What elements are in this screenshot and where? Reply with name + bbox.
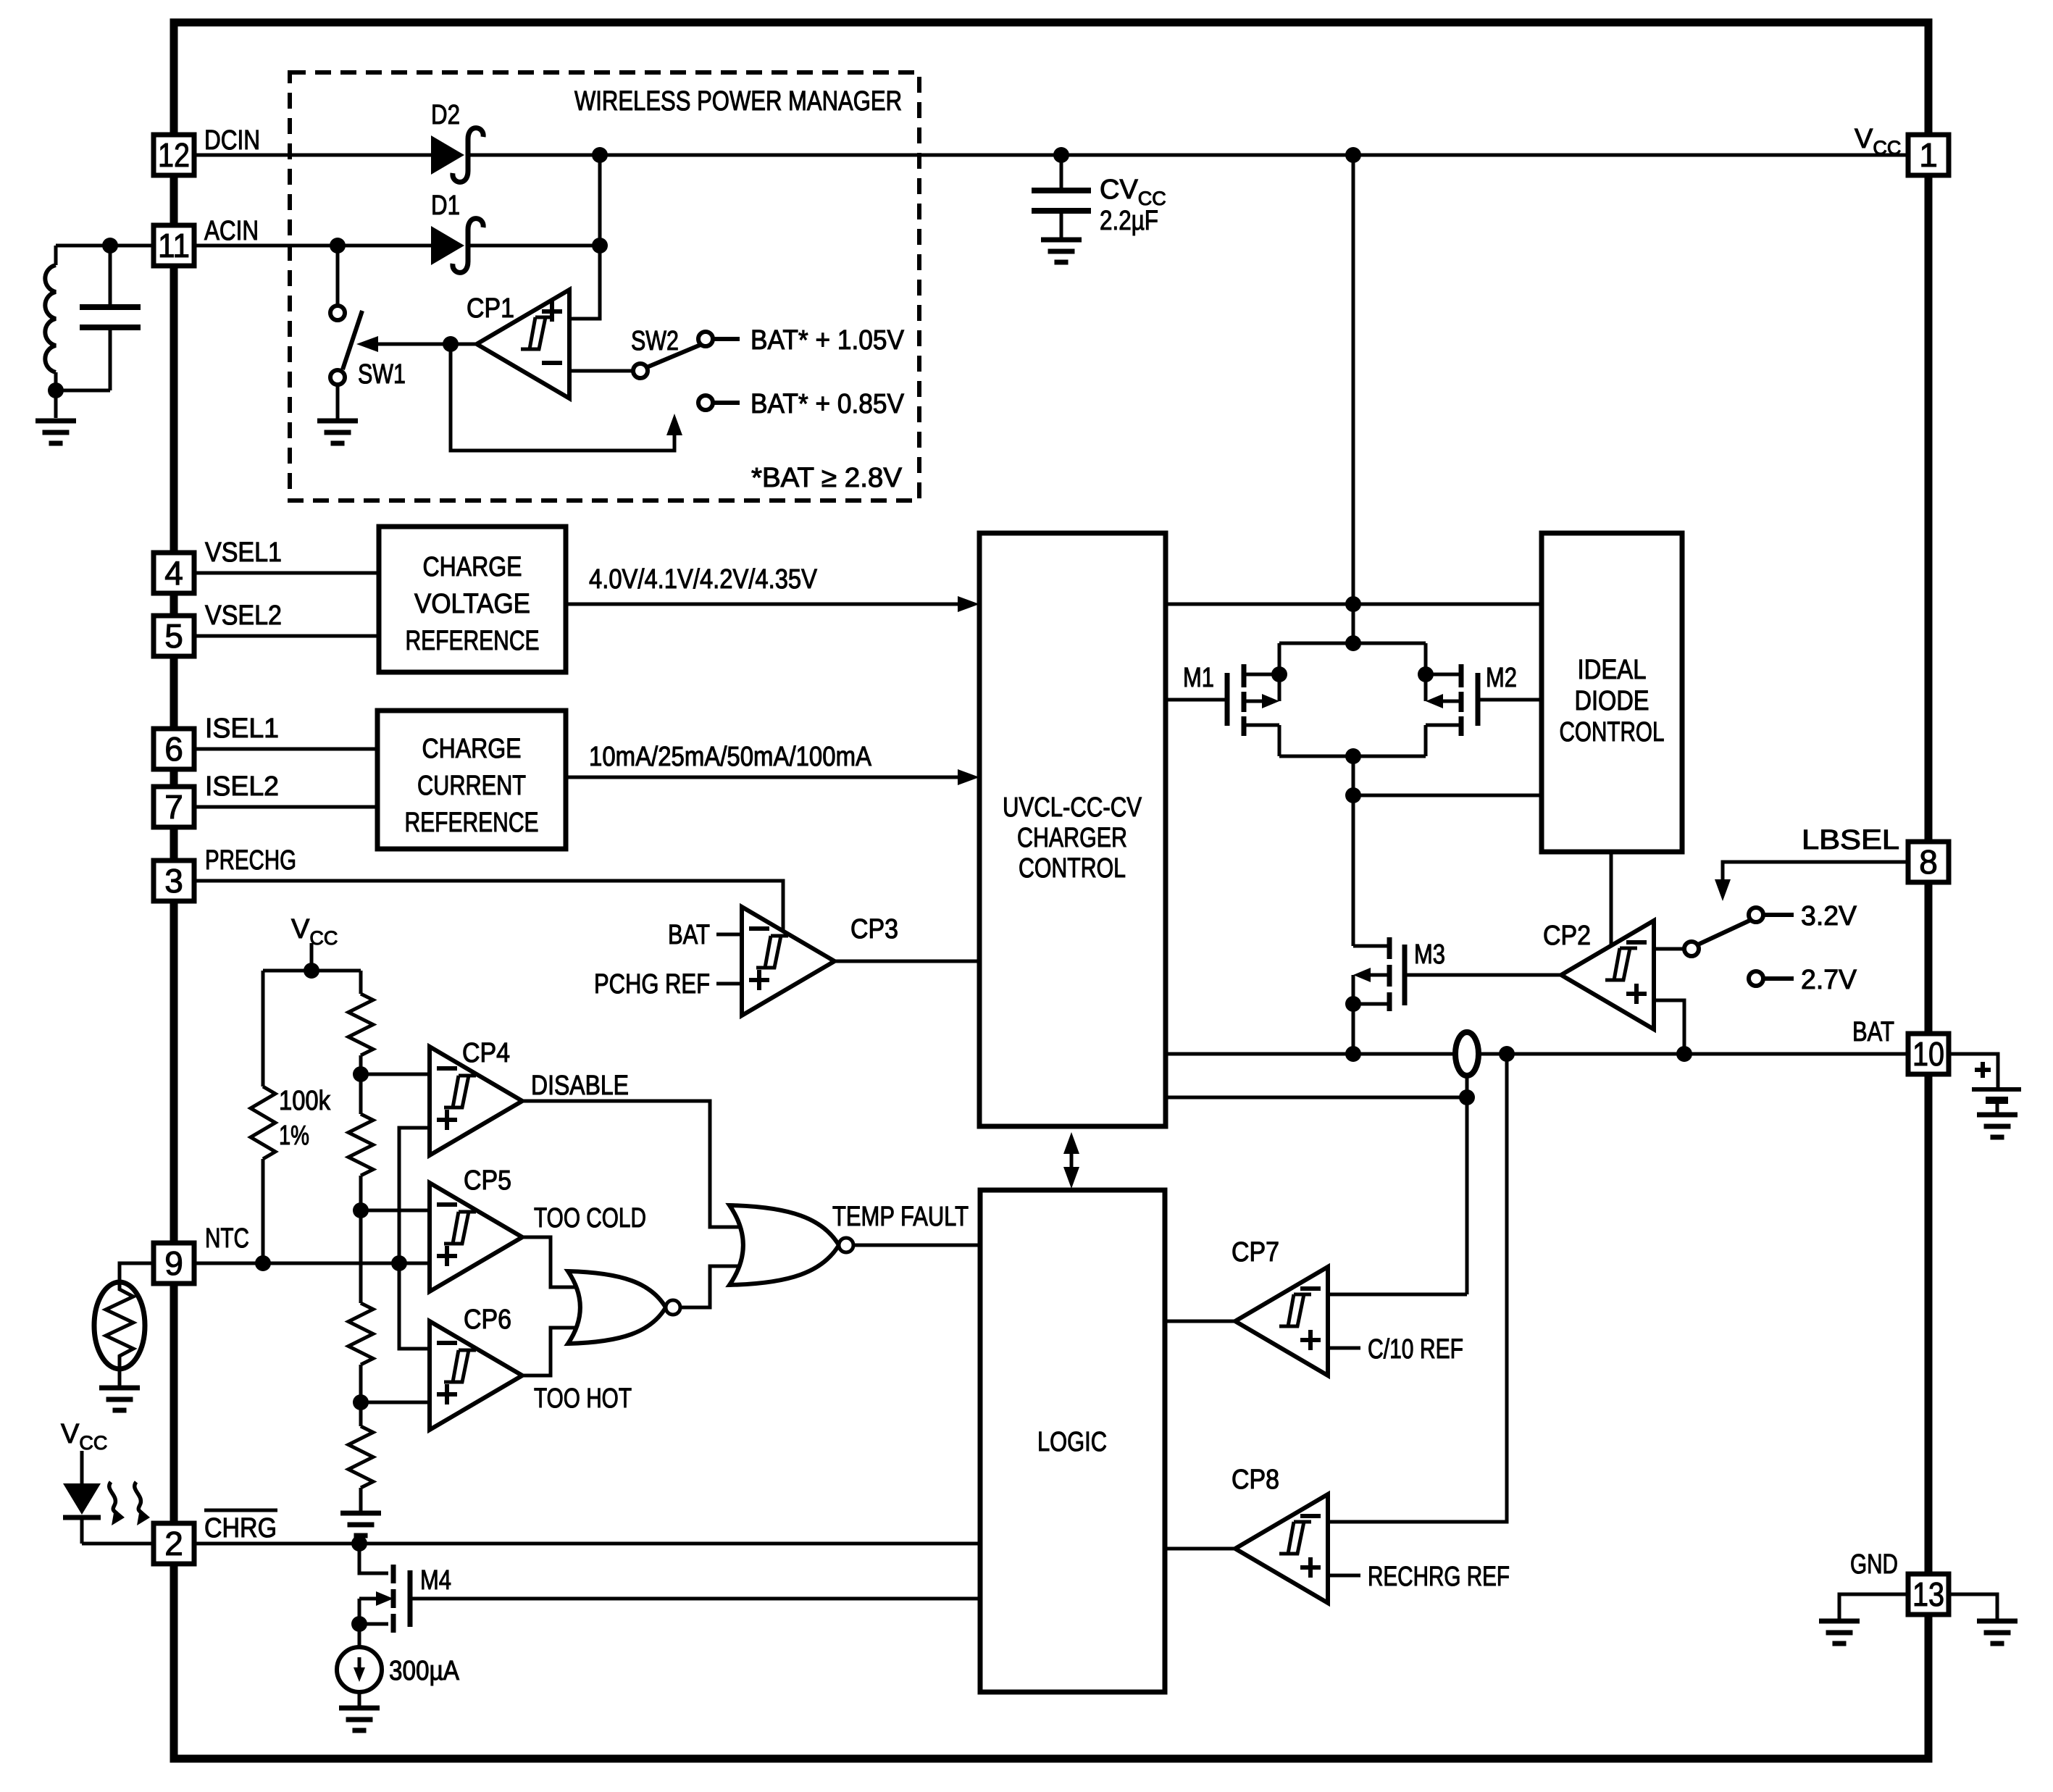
wire RC to CP6 tap xyxy=(359,1365,363,1402)
label SW2 xyxy=(631,326,679,356)
svg-text:D2: D2 xyxy=(431,100,460,130)
wire CP3 plus stub xyxy=(716,982,742,986)
node CHRG M4 junction xyxy=(351,1536,367,1552)
node C/10 sense junction xyxy=(1459,1089,1475,1105)
svg-text:M3: M3 xyxy=(1414,939,1445,970)
resistor 100k 1% xyxy=(251,1086,275,1159)
transistor M3 xyxy=(1353,937,1561,1011)
wire ISEL2 xyxy=(194,805,377,809)
svg-text:6: 6 xyxy=(164,730,183,768)
wire CP2 output to M3 gate xyxy=(1468,974,1561,977)
ground CVCC xyxy=(1041,240,1082,262)
pin 7 ISEL2 xyxy=(154,787,194,827)
svg-text:CURRENT: CURRENT xyxy=(417,771,526,801)
capacitor CVCC xyxy=(1032,155,1091,238)
svg-text:M1: M1 xyxy=(1183,663,1214,693)
label D1 xyxy=(431,190,460,221)
comparator CP7 xyxy=(1235,1267,1328,1376)
wire oval to C/10 sense xyxy=(1465,1076,1469,1294)
wire M1/M2 bottom bus xyxy=(1279,755,1426,758)
node M3-BAT junction xyxy=(1345,1046,1361,1062)
wire RD to ground xyxy=(359,1488,363,1512)
resistor chain RC xyxy=(348,1303,373,1365)
svg-text:DIODE: DIODE xyxy=(1575,686,1649,716)
svg-text:11: 11 xyxy=(158,227,190,264)
svg-text:TEMP FAULT: TEMP FAULT xyxy=(832,1202,969,1232)
wire CP7 output to logic xyxy=(1166,1320,1237,1323)
block CHARGE VOLTAGE REFERENCE xyxy=(379,527,566,672)
wire ACIN external xyxy=(110,244,153,248)
switch SW2 throw BAT*+0.85V xyxy=(698,395,740,410)
block UVCL-CC-CV CHARGER CONTROL xyxy=(979,533,1166,1126)
label 4.0V/4.1V/4.2V/4.35V xyxy=(589,564,818,595)
label D2 xyxy=(431,100,460,130)
comparator CP2 xyxy=(1561,921,1654,1029)
switch LBSEL pole xyxy=(1684,942,1699,956)
wire current source to ground xyxy=(358,1692,361,1707)
label 100k xyxy=(279,1086,331,1116)
label ACIN xyxy=(204,216,259,246)
ground current source xyxy=(339,1708,380,1730)
resistor chain RB xyxy=(348,1114,373,1176)
wire DCIN pin12 to D2 xyxy=(194,154,431,157)
svg-text:BAT* + 1.05V: BAT* + 1.05V xyxy=(750,325,905,356)
wire CP2 plus to BAT xyxy=(1654,1000,1684,1054)
comparator CP1 xyxy=(477,290,569,398)
svg-text:BAT: BAT xyxy=(668,920,710,950)
label CP1 xyxy=(467,293,514,324)
wire VSEL2 xyxy=(194,635,379,638)
label CP4 xyxy=(462,1038,510,1068)
wire charger control C/10 sense output xyxy=(1166,1096,1467,1100)
wire CP2 minus stub xyxy=(1654,947,1684,951)
svg-text:2.2µF: 2.2µF xyxy=(1100,206,1158,236)
pin 12 DCIN xyxy=(154,135,194,175)
ground GND right xyxy=(1977,1621,2018,1644)
wire CP7 minus input xyxy=(1328,1293,1467,1297)
pin 10 BAT xyxy=(1908,1034,1949,1074)
label CP2 xyxy=(1543,921,1591,951)
label TOO HOT xyxy=(534,1383,632,1414)
svg-text:300µA: 300µA xyxy=(389,1656,460,1686)
label BAT* + 1.05V xyxy=(750,325,905,356)
svg-text:VOLTAGE: VOLTAGE xyxy=(414,589,530,619)
svg-text:BAT* + 0.85V: BAT* + 0.85V xyxy=(750,389,905,419)
node coil-cap junction top xyxy=(102,238,118,254)
ground thermistor xyxy=(99,1388,140,1410)
label M1 xyxy=(1183,663,1214,693)
wire BAT line xyxy=(1166,1052,1908,1056)
wire right branch down xyxy=(359,971,363,994)
label CP7 xyxy=(1232,1237,1279,1268)
wire 100k to NTC line xyxy=(262,1159,265,1263)
svg-text:CP2: CP2 xyxy=(1543,921,1591,951)
node M1 drain junction xyxy=(1271,666,1287,682)
wire RB to CP5 tap xyxy=(359,1176,363,1210)
node mid rail junction xyxy=(1345,787,1361,803)
switch SW2 pole xyxy=(633,364,648,378)
node pair top junction xyxy=(1345,635,1361,651)
wire VSEL1 xyxy=(194,571,379,575)
label BAT input xyxy=(668,920,710,950)
node CP2 plus BAT junction xyxy=(1676,1046,1692,1062)
label M4 xyxy=(420,1565,451,1596)
wire CP4 plus route xyxy=(399,1128,430,1349)
wire top rail charger to ideal diode xyxy=(1166,603,1542,606)
pin 6 ISEL1 xyxy=(154,729,194,769)
label CHRG overline xyxy=(204,1510,277,1544)
wire CP3 output xyxy=(835,960,979,963)
svg-text:PCHG REF: PCHG REF xyxy=(594,969,710,1000)
wire to coil xyxy=(56,244,110,248)
current source 300uA xyxy=(337,1647,382,1692)
label *BAT >= 2.8V xyxy=(751,463,903,493)
pin 2 CHRG xyxy=(154,1523,194,1564)
svg-text:VSEL2: VSEL2 xyxy=(205,600,282,631)
label DISABLE xyxy=(531,1071,629,1101)
wire D1 cathode to node xyxy=(467,244,600,248)
svg-text:UVCL-CC-CV: UVCL-CC-CV xyxy=(1003,792,1142,823)
nor gate TEMP FAULT xyxy=(729,1205,853,1285)
wire M1/M2 top bus xyxy=(1279,642,1426,645)
label BAT* + 0.85V xyxy=(750,389,905,419)
wire M4 to current source xyxy=(358,1624,361,1648)
svg-text:7: 7 xyxy=(164,788,183,826)
svg-text:5: 5 xyxy=(164,617,183,655)
wire to ground coil xyxy=(54,390,58,418)
transistor M4 xyxy=(359,1544,980,1633)
node 100k NTC junction xyxy=(255,1255,271,1271)
wire vertical D1/D2 join to CP1 plus xyxy=(569,155,600,319)
ground SW1 xyxy=(317,421,358,443)
wire CP7 plus stub xyxy=(1328,1347,1360,1350)
wire cap bottom to coil bottom xyxy=(56,389,110,393)
comparator CP8 xyxy=(1235,1494,1328,1603)
wire D2 cathode to VCC pin1 xyxy=(467,154,1908,157)
block CHARGE CURRENT REFERENCE xyxy=(377,711,566,849)
svg-text:DCIN: DCIN xyxy=(204,125,260,156)
svg-text:13: 13 xyxy=(1912,1575,1944,1613)
wire divider top tee xyxy=(263,969,361,973)
pin 9 NTC xyxy=(154,1243,194,1284)
node ACIN-D1 junction xyxy=(592,238,608,254)
svg-text:LOGIC: LOGIC xyxy=(1037,1427,1107,1457)
label 2.7V xyxy=(1801,965,1857,995)
svg-text:PRECHG: PRECHG xyxy=(205,845,296,876)
wire PRECHG xyxy=(194,881,783,931)
wire CP3 minus stub xyxy=(716,933,742,937)
wire LBSEL from pin8 xyxy=(1723,862,1908,891)
svg-text:ISEL1: ISEL1 xyxy=(205,713,279,744)
ground GND left xyxy=(1819,1621,1860,1644)
node divider top junction xyxy=(304,963,319,979)
switch SW2 lever xyxy=(647,345,701,367)
comparator CP3 xyxy=(742,907,835,1016)
svg-text:1%: 1% xyxy=(279,1121,309,1151)
svg-text:REFERENCE: REFERENCE xyxy=(406,626,540,656)
svg-text:CP5: CP5 xyxy=(464,1165,511,1196)
svg-text:WIRELESS POWER MANAGER: WIRELESS POWER MANAGER xyxy=(574,86,902,117)
battery cell xyxy=(1949,1054,2021,1115)
svg-text:3.2V: 3.2V xyxy=(1801,901,1857,931)
label VSEL2 xyxy=(205,600,282,631)
node DCIN-VCC junction xyxy=(592,147,608,163)
label C/10 REF xyxy=(1368,1334,1463,1365)
label VCC xyxy=(1855,124,1901,159)
svg-text:CP1: CP1 xyxy=(467,293,514,324)
comparator CP6 xyxy=(430,1321,522,1430)
svg-text:TOO COLD: TOO COLD xyxy=(534,1203,646,1234)
label CP6 xyxy=(464,1305,511,1335)
svg-text:TOO HOT: TOO HOT xyxy=(534,1383,632,1414)
node CP8-BAT junction xyxy=(1499,1046,1515,1062)
wire ACIN pin11 to D1 xyxy=(194,244,431,248)
svg-text:RECHRG REF: RECHRG REF xyxy=(1368,1562,1510,1592)
svg-text:1: 1 xyxy=(1919,136,1938,174)
label LBSEL xyxy=(1802,825,1899,855)
wire CP4 minus xyxy=(361,1073,430,1076)
label PRECHG xyxy=(205,845,296,876)
svg-text:DISABLE: DISABLE xyxy=(531,1071,629,1101)
svg-text:CP3: CP3 xyxy=(850,914,898,945)
label TEMP FAULT xyxy=(832,1202,969,1232)
svg-text:SW1: SW1 xyxy=(358,359,406,390)
node coil-cap junction bottom xyxy=(48,382,64,398)
ground battery xyxy=(1977,1115,2018,1137)
label VCC divider xyxy=(291,914,338,949)
arrow voltage ref into charger control xyxy=(958,596,979,612)
ground coil xyxy=(35,421,76,443)
pin 11 ACIN xyxy=(154,225,194,266)
wire M3 source to BAT xyxy=(1352,1004,1355,1054)
wire VCC stub xyxy=(310,943,314,971)
svg-text:ISEL2: ISEL2 xyxy=(205,771,279,802)
wire RC tap to RD xyxy=(359,1402,363,1426)
label TOO COLD xyxy=(534,1203,646,1234)
wire NTC line xyxy=(194,1262,430,1265)
label CP3 xyxy=(850,914,898,945)
svg-text:M4: M4 xyxy=(420,1565,451,1596)
svg-text:CP6: CP6 xyxy=(464,1305,511,1335)
wire current reference output xyxy=(566,776,971,779)
thermistor NTC xyxy=(94,1282,145,1369)
svg-text:9: 9 xyxy=(164,1244,183,1282)
node M3 source junction xyxy=(1345,996,1361,1012)
svg-text:REFERENCE: REFERENCE xyxy=(405,808,539,838)
svg-text:4: 4 xyxy=(164,554,183,592)
svg-text:VSEL1: VSEL1 xyxy=(205,537,282,568)
label PCHG REF xyxy=(594,969,710,1000)
svg-text:CP7: CP7 xyxy=(1232,1237,1279,1268)
wire CP8 minus sense xyxy=(1328,1054,1507,1522)
wire led to pin2 xyxy=(82,1542,154,1546)
label DCIN xyxy=(204,125,260,156)
label VSEL1 xyxy=(205,537,282,568)
wire VCC rail down xyxy=(1352,155,1355,643)
wire voltage reference output xyxy=(566,603,971,606)
node CP6 plus tap xyxy=(353,1394,369,1410)
svg-text:SW2: SW2 xyxy=(631,326,679,356)
arrow LBSEL to switch xyxy=(1715,879,1731,901)
wire RA to CP4 tap xyxy=(359,1055,363,1114)
wire thermistor to ground xyxy=(118,1368,122,1386)
wire CHRG to logic xyxy=(194,1542,980,1546)
wire CP6 plus xyxy=(361,1401,430,1404)
transistor M2 xyxy=(1426,643,1542,756)
svg-text:CHARGE: CHARGE xyxy=(423,552,522,582)
label 1% xyxy=(279,1121,309,1151)
svg-text:LBSEL: LBSEL xyxy=(1802,825,1899,855)
label 2.2uF xyxy=(1100,206,1158,236)
arrow charger control to logic (bidirectional) xyxy=(1063,1132,1079,1189)
svg-text:*BAT ≥ 2.8V: *BAT ≥ 2.8V xyxy=(751,463,903,493)
pin 5 VSEL2 xyxy=(154,616,194,656)
svg-text:100k: 100k xyxy=(279,1086,331,1116)
label M3 xyxy=(1414,939,1445,970)
label NTC xyxy=(205,1223,249,1254)
svg-text:M2: M2 xyxy=(1486,663,1517,693)
capacitor resonant xyxy=(80,246,141,390)
svg-text:NTC: NTC xyxy=(205,1223,249,1254)
svg-text:CONTROL: CONTROL xyxy=(1560,717,1665,748)
label BAT xyxy=(1852,1017,1894,1047)
switch LBSEL throw 2.7V xyxy=(1749,971,1794,986)
diode D1 xyxy=(431,219,483,273)
switch LBSEL throw 3.2V xyxy=(1749,908,1794,922)
inductor RX coil xyxy=(45,246,56,390)
node pair bottom junction xyxy=(1345,748,1361,764)
svg-text:CP8: CP8 xyxy=(1232,1465,1279,1495)
svg-text:10mA/25mA/50mA/100mA: 10mA/25mA/50mA/100mA xyxy=(589,742,872,772)
svg-text:C/10 REF: C/10 REF xyxy=(1368,1334,1463,1365)
wire GND right xyxy=(1949,1594,1997,1620)
switch LBSEL lever xyxy=(1698,920,1751,945)
node CP4 minus tap xyxy=(353,1066,369,1082)
node M2 drain junction xyxy=(1418,666,1434,682)
wire CP1 feedback to SW2 throw xyxy=(451,344,674,451)
svg-text:IDEAL: IDEAL xyxy=(1578,655,1647,685)
svg-text:GND: GND xyxy=(1850,1549,1898,1580)
svg-text:CHRG: CHRG xyxy=(204,1513,277,1544)
wire left branch down xyxy=(262,971,265,1086)
arrow current ref into charger control xyxy=(958,769,979,785)
label WIRELESS POWER MANAGER xyxy=(574,86,902,117)
switch SW1 xyxy=(330,306,362,385)
svg-text:CP4: CP4 xyxy=(462,1038,510,1068)
wire CP1 minus to SW2 pole xyxy=(569,369,633,373)
nor gate small xyxy=(568,1271,680,1344)
pin 8 LBSEL xyxy=(1908,842,1949,882)
label 10mA/25mA/50mA/100mA xyxy=(589,742,872,772)
ground divider chain xyxy=(340,1513,381,1536)
crossover oval on BAT line xyxy=(1455,1032,1479,1076)
pin 13 GND xyxy=(1908,1574,1949,1615)
wire CP1 output xyxy=(369,343,477,346)
label 300uA xyxy=(389,1656,460,1686)
transistor M1 xyxy=(1166,643,1279,756)
node CP5 minus tap xyxy=(353,1202,369,1218)
node NTC-CP4 junction xyxy=(391,1255,407,1271)
label CP5 xyxy=(464,1165,511,1196)
wire CP5 output route xyxy=(522,1237,584,1287)
diode D2 xyxy=(431,128,483,183)
resistor chain RD xyxy=(348,1426,373,1488)
pin 1 VCC xyxy=(1908,135,1949,175)
node ACIN-SW1 junction xyxy=(330,238,346,254)
wire DISABLE route xyxy=(522,1101,746,1227)
pin 4 VSEL1 xyxy=(154,553,194,593)
wire TEMP FAULT to logic xyxy=(853,1244,980,1247)
led CHRG indicator xyxy=(63,1451,101,1544)
comparator CP4 xyxy=(430,1047,522,1155)
wire CP8 output to logic xyxy=(1166,1547,1237,1551)
pin 3 PRECHG xyxy=(154,861,194,901)
svg-text:2: 2 xyxy=(164,1525,183,1562)
wire ISEL1 xyxy=(194,748,377,751)
wire small nor out route xyxy=(680,1266,746,1307)
svg-text:3: 3 xyxy=(164,862,183,900)
label GND xyxy=(1850,1549,1898,1580)
block IDEAL DIODE CONTROL xyxy=(1542,533,1682,852)
wire SW1 to ground xyxy=(336,385,340,419)
svg-text:10: 10 xyxy=(1912,1035,1944,1073)
node top rail junction xyxy=(1345,596,1361,612)
wire pair bottom down to M3 xyxy=(1352,756,1355,946)
label RECHRG REF xyxy=(1368,1562,1510,1592)
wire CP6 output route xyxy=(522,1328,584,1376)
wire NTC external xyxy=(120,1263,153,1284)
svg-text:BAT: BAT xyxy=(1852,1017,1894,1047)
node VCC rail tap xyxy=(1345,147,1361,163)
svg-text:ACIN: ACIN xyxy=(204,216,259,246)
wire ideal diode to CP2 xyxy=(1610,852,1613,947)
svg-text:2.7V: 2.7V xyxy=(1801,965,1857,995)
label VCC led xyxy=(61,1419,107,1454)
svg-text:CONTROL: CONTROL xyxy=(1019,853,1126,884)
svg-text:8: 8 xyxy=(1919,843,1938,881)
wire CP8 plus stub xyxy=(1328,1574,1360,1578)
wire CP5 tap down xyxy=(359,1210,363,1303)
resistor chain RA xyxy=(348,994,373,1055)
svg-text:CHARGE: CHARGE xyxy=(422,734,522,764)
wire CP5 minus xyxy=(361,1209,430,1213)
node CP1 output junction xyxy=(443,336,459,352)
block LOGIC xyxy=(980,1190,1165,1692)
wire ACIN to SW1 xyxy=(336,246,340,306)
node CVCC tap xyxy=(1053,147,1069,163)
label ISEL1 xyxy=(205,713,279,744)
svg-text:4.0V/4.1V/4.2V/4.35V: 4.0V/4.1V/4.2V/4.35V xyxy=(589,564,818,595)
svg-text:CHARGER: CHARGER xyxy=(1017,823,1127,853)
wire GND left xyxy=(1839,1594,1910,1620)
wireless power manager dashed box xyxy=(290,72,919,501)
label 3.2V xyxy=(1801,901,1857,931)
svg-text:D1: D1 xyxy=(431,190,460,221)
label ISEL2 xyxy=(205,771,279,802)
label CVCC xyxy=(1100,175,1166,209)
label M2 xyxy=(1486,663,1517,693)
label CP8 xyxy=(1232,1465,1279,1495)
arrow feedback to BAT*+0.85V throw xyxy=(666,414,682,435)
led light arrows xyxy=(109,1482,150,1525)
node M4 source junction xyxy=(351,1616,367,1632)
arrow CP1 output to SW1 xyxy=(356,336,378,352)
svg-text:12: 12 xyxy=(158,136,190,174)
wire mid rail to ideal diode xyxy=(1353,794,1542,797)
label SW1 xyxy=(358,359,406,390)
switch SW2 throw BAT*+1.05V xyxy=(698,332,740,346)
comparator CP5 xyxy=(430,1183,522,1291)
